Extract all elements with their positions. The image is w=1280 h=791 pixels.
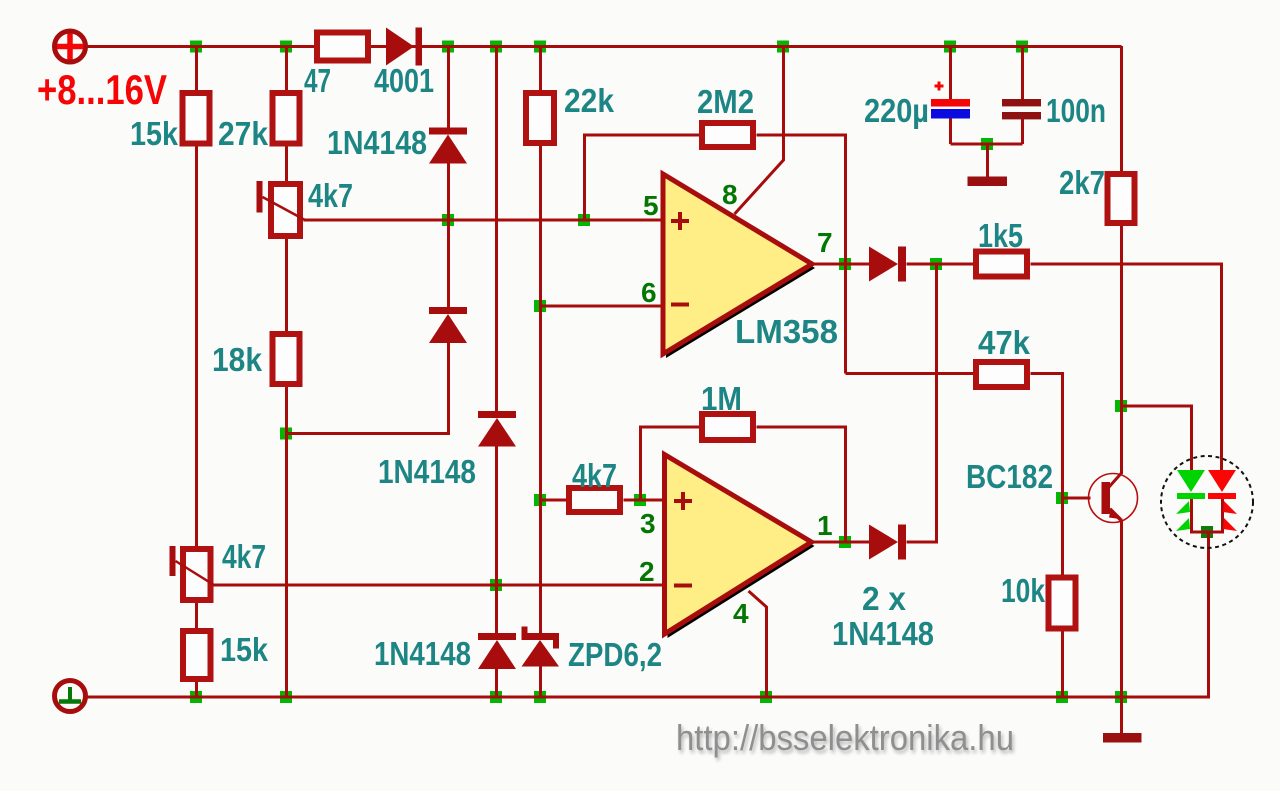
svg-text:+8...16V: +8...16V xyxy=(37,66,167,113)
node bottom-rail j23 xyxy=(190,691,202,703)
svg-text:4: 4 xyxy=(733,598,749,629)
resistor 47 xyxy=(317,33,368,61)
resistor 22k xyxy=(526,93,554,143)
svg-text:15k: 15k xyxy=(220,631,269,668)
wire d6 to 1k5 xyxy=(907,263,974,266)
node in+ wire j9 xyxy=(442,214,454,226)
svg-text:2 x: 2 x xyxy=(862,580,907,617)
diode D4 1N4148 xyxy=(478,633,516,669)
diode D2 1N4148 xyxy=(429,307,467,343)
wire pin8 xyxy=(735,46,784,214)
capacitor 100n xyxy=(1002,99,1041,119)
resistor 2k7 xyxy=(1108,174,1135,223)
potentiometer 4k7 (upper) xyxy=(257,181,306,236)
svg-text:4k7: 4k7 xyxy=(572,457,617,494)
wire pin4 xyxy=(749,591,767,697)
svg-text:22k: 22k xyxy=(564,82,615,119)
node op2 output j18 xyxy=(839,536,851,548)
svg-text:1N4148: 1N4148 xyxy=(374,635,471,672)
wire d1 top xyxy=(447,46,450,128)
node top-rail j2 xyxy=(280,41,292,53)
svg-text:1N4148: 1N4148 xyxy=(327,124,427,161)
potentiometer 4k7 (lower) xyxy=(170,546,215,600)
svg-text:http://bsselektronika.hu: http://bsselektronika.hu xyxy=(676,717,1014,758)
node bottom-rail j26 xyxy=(534,691,546,703)
transistor Q1 BC182 xyxy=(1089,473,1138,523)
op-amp U1A LM358 xyxy=(663,174,815,358)
node top-rail j1 xyxy=(190,41,202,53)
svg-text:1M: 1M xyxy=(701,380,742,417)
node bottom-rail j27 xyxy=(760,691,772,703)
svg-text:5: 5 xyxy=(643,190,659,221)
LED green xyxy=(1176,470,1205,531)
svg-text:2: 2 xyxy=(639,556,655,587)
node top-rail j6 xyxy=(777,41,789,53)
svg-text:1N4148: 1N4148 xyxy=(378,453,476,490)
wire 2k7 to collector xyxy=(1120,226,1123,474)
wire pot2 wiper to op2 in- xyxy=(214,584,665,587)
wire pin6 xyxy=(541,305,664,308)
wire 47k row xyxy=(846,372,974,375)
node top-rail j5 xyxy=(534,41,546,53)
svg-text:100n: 100n xyxy=(1046,92,1106,129)
wire d4 to rail xyxy=(495,669,498,697)
resistor 47k xyxy=(976,362,1027,387)
resistor 1M xyxy=(702,414,753,440)
svg-text:1: 1 xyxy=(817,510,833,541)
node top-rail j7 xyxy=(944,41,956,53)
op-amp U1B LM358 xyxy=(665,455,815,639)
wire 220u top xyxy=(949,46,952,99)
diode 4001 xyxy=(386,28,422,66)
svg-text:220µ: 220µ xyxy=(864,92,929,129)
resistor 1k5 xyxy=(976,252,1027,277)
resistor 27k xyxy=(273,93,300,144)
wire d1-d2 xyxy=(447,163,450,307)
node bottom-rail j25 xyxy=(490,691,502,703)
svg-text:7: 7 xyxy=(817,227,833,258)
wire base resistor 10k xyxy=(1061,498,1064,575)
node top-rail j3 xyxy=(442,41,454,53)
diode D7 1N4148 (op2 out) xyxy=(869,525,906,560)
svg-text:10k: 10k xyxy=(1001,572,1046,609)
svg-text:1N4148: 1N4148 xyxy=(832,615,934,652)
capacitor 220u electrolytic xyxy=(931,82,970,119)
ground (emitter) xyxy=(1103,733,1142,743)
node in+ wire j10 xyxy=(578,214,590,226)
svg-text:4k7: 4k7 xyxy=(308,177,353,214)
svg-text:BC182: BC182 xyxy=(966,458,1053,495)
wire 2k7 top xyxy=(1120,46,1123,171)
node led cathode j22 xyxy=(1201,526,1213,538)
resistor 18k xyxy=(273,334,300,384)
wire led cathodes xyxy=(1192,499,1223,532)
wire 10k to rail xyxy=(1061,632,1064,698)
zener ZPD6,2 xyxy=(522,627,560,667)
node bottom-rail j28 xyxy=(1056,691,1068,703)
wire 2M2 left xyxy=(585,135,700,220)
wire pot1 to 18k xyxy=(285,239,288,331)
node base j20 xyxy=(1056,492,1068,504)
LED red xyxy=(1208,470,1237,531)
wire 4k7 row left xyxy=(541,499,567,502)
svg-text:8: 8 xyxy=(722,179,738,210)
diode D1 1N4148 xyxy=(429,128,467,164)
wire 2M2 right xyxy=(757,135,846,374)
resistor 15k (bottom) xyxy=(183,631,211,679)
wire op1 out xyxy=(811,263,870,266)
wire op2 out xyxy=(811,541,870,544)
svg-text:2k7: 2k7 xyxy=(1059,164,1105,201)
wire 1M right xyxy=(757,427,846,542)
svg-text:3: 3 xyxy=(640,508,656,539)
wire bottom rail xyxy=(88,532,1209,697)
wire v-left mid xyxy=(195,147,198,547)
svg-text:2M2: 2M2 xyxy=(697,83,754,120)
svg-text:1k5: 1k5 xyxy=(978,217,1023,254)
wire v-27k top xyxy=(285,46,288,90)
wire 1M left xyxy=(641,427,700,500)
svg-text:ZPD6,2: ZPD6,2 xyxy=(568,636,662,673)
wire d3 line xyxy=(495,46,498,411)
terminal + (power) xyxy=(55,31,86,62)
node bottom-rail j24 xyxy=(280,691,292,703)
resistor 10k xyxy=(1049,578,1076,629)
wire d3 to pin2 to d4 xyxy=(495,446,498,633)
wire 47k to base xyxy=(1031,374,1091,499)
svg-text:47: 47 xyxy=(304,62,331,99)
wire 22k to zener xyxy=(539,146,542,633)
svg-text:15k: 15k xyxy=(130,115,179,152)
wire gnd stub caps xyxy=(986,144,989,177)
wire d7 to or-node xyxy=(907,264,937,542)
wire 15k2 to rail xyxy=(195,682,198,697)
svg-text:27k: 27k xyxy=(218,115,269,152)
resistor 2M2 xyxy=(702,123,753,147)
svg-text:4k7: 4k7 xyxy=(222,538,266,575)
wire 27k to pot1 xyxy=(285,147,288,182)
node 4k7 left j15 xyxy=(534,494,546,506)
resistor 15k (top left) xyxy=(183,93,210,144)
wire caps bottom xyxy=(951,143,1023,146)
node collector j21 xyxy=(1115,400,1127,412)
terminal ground xyxy=(55,681,86,712)
LED pair (bi-colour indicator) xyxy=(1161,456,1253,548)
diode D3 1N4148 xyxy=(478,411,516,447)
wire 1k5 to red led xyxy=(1031,264,1222,470)
node cap gnd j19 xyxy=(981,138,993,150)
node top-rail j8 xyxy=(1016,41,1028,53)
diode D6 1N4148 (op1 out) xyxy=(869,247,906,282)
wire 100n bottom xyxy=(1021,119,1024,144)
svg-text:4001: 4001 xyxy=(374,62,434,99)
wire 18k to rail xyxy=(285,387,288,697)
node op2 in+ j16 xyxy=(634,494,646,506)
wire v-left-15k xyxy=(195,46,198,90)
node 18k-diode j14 xyxy=(280,428,292,440)
wire 100n top xyxy=(1021,46,1024,99)
node diode-or j12 xyxy=(930,258,942,270)
wire collector to green led xyxy=(1122,406,1192,470)
resistor 4k7 (op2 input) xyxy=(569,488,620,512)
wire pot2 to 15k2 xyxy=(195,603,198,628)
node top-rail j4 xyxy=(490,41,502,53)
wire zener to rail xyxy=(539,665,542,697)
node bottom-rail j29 xyxy=(1115,691,1127,703)
wire 18k node to diode2 xyxy=(287,343,449,434)
node pin2 j17 xyxy=(490,579,502,591)
wire pot1 wiper to op1 in+ xyxy=(304,219,664,222)
svg-text:6: 6 xyxy=(641,277,657,308)
wire emitter to gnd xyxy=(1120,520,1123,733)
wire 4k7 row right xyxy=(624,499,665,502)
node op1 output j11 xyxy=(839,258,851,270)
svg-text:47k: 47k xyxy=(978,324,1031,361)
wire 220u bottom xyxy=(949,119,952,145)
node pin6 j13 xyxy=(534,300,546,312)
svg-text:LM358: LM358 xyxy=(735,313,838,350)
wire 22k top xyxy=(539,46,542,90)
wire top rail xyxy=(88,45,1122,48)
ground (caps) xyxy=(968,177,1008,187)
svg-text:18k: 18k xyxy=(212,341,263,378)
